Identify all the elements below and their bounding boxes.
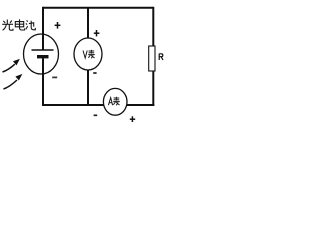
- photocell plate short thick (-): [37, 55, 49, 58]
- photocell plus sign: [55, 22, 61, 29]
- wire right lower: [152, 71, 154, 106]
- wire voltmeter branch lower: [87, 70, 89, 104]
- light arrow 1: [3, 59, 20, 72]
- voltmeter plus sign: [94, 30, 100, 36]
- wire voltmeter branch upper: [87, 7, 89, 39]
- wire bottom left segment: [42, 104, 104, 106]
- wire photocell branch lower: [42, 58, 44, 106]
- wire bottom right segment: [127, 104, 155, 106]
- wire right upper: [152, 7, 154, 46]
- wire top: [43, 7, 153, 9]
- photocell minus sign: [52, 76, 57, 78]
- photocell plate long (+): [32, 49, 54, 51]
- voltmeter label V表: [83, 50, 95, 59]
- ammeter minus sign: [94, 114, 98, 116]
- ammeter plus sign: [130, 116, 135, 122]
- label 光电池: [2, 19, 35, 30]
- resistor label R: [159, 54, 163, 60]
- resistor R box: [149, 46, 155, 71]
- ammeter U2 circle: [103, 88, 127, 115]
- ammeter label A表: [108, 97, 119, 106]
- wire photocell branch upper: [42, 7, 44, 50]
- voltmeter U1 circle: [74, 38, 102, 70]
- voltmeter minus sign: [93, 72, 96, 74]
- photocell B1 circle: [24, 34, 59, 74]
- light arrow 2: [4, 75, 22, 89]
